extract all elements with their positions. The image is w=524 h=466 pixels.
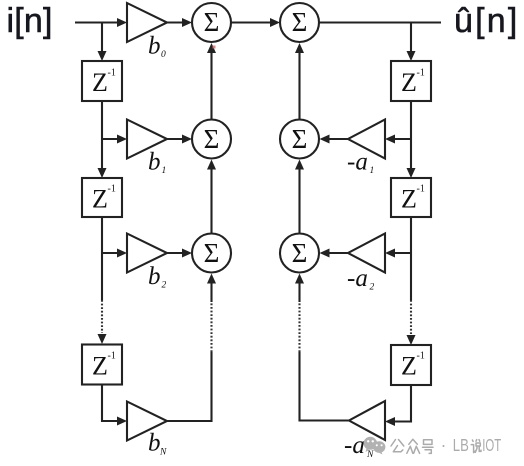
- wire input to b0: [75, 21, 119, 23]
- arrow bottom into S3: [207, 274, 216, 284]
- svg-text:Z: Z: [92, 185, 108, 214]
- delay label Z2 right: [401, 184, 425, 214]
- red artifact at S1 arrow: [213, 46, 216, 49]
- wire Z1R to tap a1: [410, 101, 412, 139]
- arrow into Z2R: [407, 168, 416, 178]
- svg-text:Σ: Σ: [204, 124, 220, 154]
- watermark char shuo: [471, 440, 481, 453]
- delay label Z1 left: [92, 68, 116, 98]
- svg-text:Z: Z: [92, 68, 108, 97]
- wire Z3L down and right to bN: [102, 385, 119, 422]
- watermark icon: [364, 437, 386, 455]
- value label -a2: [347, 265, 375, 293]
- value label -a1: [347, 149, 374, 177]
- arrow into S3: [182, 249, 192, 258]
- value label b2: [148, 263, 167, 291]
- summer S4: [280, 3, 319, 42]
- svg-text:LB: LB: [453, 435, 469, 455]
- gain b1: [127, 120, 167, 159]
- wire dotted right chain: [410, 300, 412, 334]
- arrow S3 into S2: [207, 160, 216, 170]
- wire Z3R down and left to aN: [394, 385, 411, 422]
- svg-text:b: b: [148, 263, 161, 290]
- svg-text:IOT: IOT: [482, 435, 501, 455]
- wire dotted up to S3: [210, 302, 212, 352]
- summer S3: [192, 234, 231, 273]
- arrow into Z3L: [98, 334, 107, 344]
- svg-text:Σ: Σ: [292, 238, 308, 268]
- watermark char zhong: [407, 439, 420, 453]
- wire Z2L to tap b2: [101, 217, 103, 253]
- delay Z3 left: [82, 345, 122, 385]
- svg-text:-1: -1: [108, 68, 116, 79]
- wire a2 apex to S6: [329, 252, 348, 254]
- delay label Z3 right: [401, 351, 425, 381]
- wire tap to a1: [394, 138, 411, 140]
- svg-text:N: N: [159, 448, 167, 458]
- svg-text:Z: Z: [401, 185, 417, 214]
- delay Z2 right: [391, 178, 431, 217]
- svg-text:b: b: [148, 430, 161, 457]
- svg-text:0: 0: [161, 50, 166, 60]
- wire junction drop to Z1 right: [410, 23, 412, 53]
- delay Z2 left: [82, 178, 122, 217]
- delay Z1 right: [391, 61, 431, 101]
- arrow into Z1R: [407, 51, 416, 61]
- value label -aN: [344, 432, 374, 460]
- gain -aN: [349, 401, 385, 440]
- delay label Z2 left: [92, 184, 116, 214]
- arrow S6 into S5: [295, 160, 304, 170]
- svg-text:2: 2: [162, 281, 167, 291]
- value label b1: [148, 149, 166, 177]
- wire bN apex right and up: [167, 352, 212, 421]
- svg-text:1: 1: [370, 166, 375, 176]
- arrow into Z1L: [98, 51, 107, 61]
- watermark char hao: [423, 440, 434, 454]
- svg-text:i[n]: i[n]: [7, 2, 53, 40]
- svg-text:-1: -1: [417, 184, 425, 195]
- summer S5: [280, 120, 319, 159]
- arrow into bN: [117, 417, 127, 426]
- wire dotted up to S6: [298, 302, 300, 352]
- wire Z2R to tap a2: [410, 217, 412, 253]
- wire tap down solid part right: [410, 253, 412, 300]
- svg-text:-1: -1: [417, 351, 425, 362]
- svg-text:Σ: Σ: [204, 7, 220, 37]
- arrow a2 into S6: [320, 249, 330, 258]
- delay label Z1 right: [401, 68, 425, 98]
- wire dotted left chain: [101, 300, 103, 333]
- arrow into Z2L: [98, 168, 107, 178]
- svg-text:b: b: [148, 33, 161, 60]
- wire junction drop to Z1 left: [101, 23, 103, 53]
- wire S1 to S4: [231, 21, 272, 23]
- arrow S2 into S1: [207, 43, 216, 53]
- summer S2: [192, 120, 231, 159]
- wire b0 apex to S1: [167, 21, 184, 23]
- gain b2: [127, 234, 167, 273]
- svg-text:Σ: Σ: [292, 7, 308, 37]
- wire tap to a2: [394, 252, 411, 254]
- arrow into Z3R: [407, 335, 416, 345]
- gain bN: [127, 402, 167, 441]
- svg-text:Z: Z: [401, 68, 417, 97]
- svg-text:Z: Z: [401, 352, 417, 381]
- wire S3 up to S2: [210, 169, 212, 234]
- wire S6 up to S5: [298, 169, 300, 234]
- arrow into S2: [182, 135, 192, 144]
- arrow into a2: [385, 249, 395, 258]
- svg-text:-a: -a: [347, 265, 368, 292]
- svg-text:-1: -1: [417, 68, 425, 79]
- delay label Z3 left: [92, 351, 116, 381]
- svg-text:û[n]: û[n]: [454, 2, 520, 40]
- value label b0: [148, 33, 166, 61]
- value label bN: [148, 430, 167, 458]
- wire b1 apex to S2: [167, 138, 184, 140]
- watermark char gong: [391, 439, 481, 453]
- wire tap down to Z2L: [101, 139, 103, 169]
- arrow bottom into S6: [295, 274, 304, 284]
- arrow a1 into S5: [320, 135, 330, 144]
- arrow into S1: [182, 18, 192, 27]
- arrow into a1: [385, 135, 395, 144]
- svg-text:·: ·: [441, 435, 447, 455]
- svg-text:N: N: [366, 450, 374, 460]
- wire S2 up to S1: [210, 52, 212, 120]
- svg-text:-a: -a: [344, 432, 365, 459]
- wire aN apex left and up: [300, 352, 350, 421]
- svg-text:Σ: Σ: [204, 238, 220, 268]
- wire a1 apex to S5: [329, 138, 348, 140]
- svg-text:Σ: Σ: [292, 124, 308, 154]
- delay Z1 left: [82, 61, 122, 101]
- svg-text:Z: Z: [92, 352, 108, 381]
- summer S1: [192, 3, 231, 42]
- gain -a1: [348, 120, 385, 159]
- svg-text:-1: -1: [108, 351, 116, 362]
- gain b0: [127, 3, 167, 42]
- arrow into b2: [117, 249, 127, 258]
- delay Z3 right: [391, 345, 431, 385]
- wire S4 to output: [319, 21, 441, 23]
- gain -a2: [348, 234, 385, 273]
- svg-text:-1: -1: [108, 184, 116, 195]
- wire S5 up to S4: [298, 52, 300, 120]
- wire tap to b2: [102, 252, 119, 254]
- svg-text:2: 2: [370, 283, 375, 293]
- wire tap to b1: [102, 138, 119, 140]
- wire Z1L to tap b1: [101, 101, 103, 139]
- svg-text:-a: -a: [347, 149, 368, 176]
- wire solid into S6 arrow: [298, 282, 300, 302]
- wire solid into S3 arrow: [210, 282, 212, 302]
- summer S6: [280, 234, 319, 273]
- arrow into b0: [117, 18, 127, 27]
- svg-text:b: b: [148, 149, 161, 176]
- svg-text:1: 1: [162, 166, 167, 176]
- wire tap down to Z2R: [410, 139, 412, 169]
- arrow S5 into S4: [295, 43, 304, 53]
- wire tap down solid part: [101, 253, 103, 300]
- wire b2 apex to S3: [167, 252, 184, 254]
- arrow into b1: [117, 135, 127, 144]
- arrow into S4: [270, 18, 280, 27]
- arrow into aN: [385, 417, 395, 426]
